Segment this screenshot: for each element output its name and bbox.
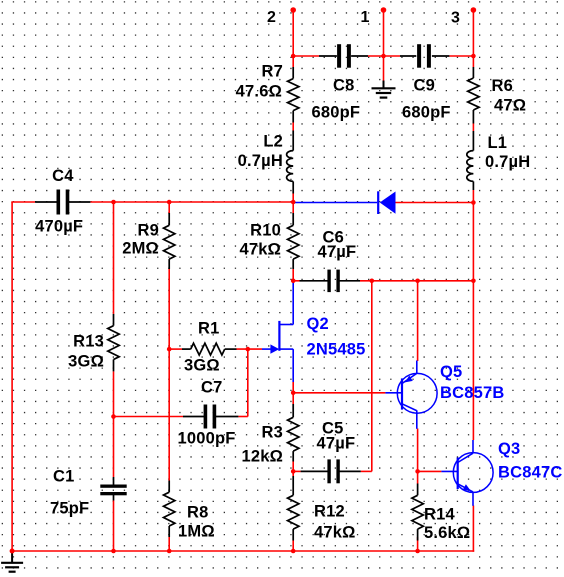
junction xyxy=(111,200,116,205)
capacitor C6 xyxy=(300,229,361,293)
capacitor C9 xyxy=(400,44,451,121)
svg-text:3: 3 xyxy=(451,10,460,27)
wire Q3 base row xyxy=(418,470,442,472)
svg-text:Q3: Q3 xyxy=(498,440,520,458)
svg-text:R9: R9 xyxy=(138,222,160,240)
junction xyxy=(370,279,375,284)
junction xyxy=(246,347,251,352)
svg-text:C1: C1 xyxy=(53,468,75,486)
wire R3 column xyxy=(292,393,294,472)
wire C7 row xyxy=(114,416,248,418)
junction xyxy=(291,549,296,554)
wire Q3 emitter drop xyxy=(472,506,474,552)
wire R10 column xyxy=(292,202,294,281)
resistor R7 xyxy=(236,63,299,123)
resistor R10 xyxy=(239,213,298,269)
wire main horizontal left segment xyxy=(11,201,293,203)
wire Q2 source to junction xyxy=(292,382,294,393)
svg-text:C7: C7 xyxy=(201,379,223,397)
capacitor C8 xyxy=(312,44,369,121)
svg-text:L2: L2 xyxy=(263,133,283,151)
svg-text:1: 1 xyxy=(361,9,370,26)
junction xyxy=(291,469,296,474)
resistor R8 xyxy=(164,481,215,541)
ground top xyxy=(372,81,396,98)
wire Q5 base row xyxy=(293,392,385,394)
junction xyxy=(291,279,296,284)
junction xyxy=(167,200,172,205)
wire R12 column top xyxy=(292,471,294,551)
svg-text:BC857B: BC857B xyxy=(440,384,504,402)
junction xyxy=(10,549,15,554)
svg-text:0.7µH: 0.7µH xyxy=(485,153,530,171)
wire node1 ground stub xyxy=(383,56,385,81)
svg-text:2N5485: 2N5485 xyxy=(307,341,366,359)
terminal node 2 xyxy=(290,7,296,13)
svg-text:BC847C: BC847C xyxy=(498,464,562,482)
junction xyxy=(111,549,116,554)
wire R14 column xyxy=(417,471,419,551)
resistor R6 xyxy=(468,67,526,124)
junction xyxy=(415,279,420,284)
wire R6 column segments xyxy=(472,56,474,202)
svg-text:470µF: 470µF xyxy=(35,218,83,236)
svg-text:2MΩ: 2MΩ xyxy=(122,240,159,258)
svg-text:Q5: Q5 xyxy=(440,363,462,381)
svg-text:0.7µH: 0.7µH xyxy=(238,152,283,170)
svg-text:R3: R3 xyxy=(262,424,284,442)
junction xyxy=(291,391,296,396)
svg-text:47.6Ω: 47.6Ω xyxy=(236,83,282,101)
svg-text:1MΩ: 1MΩ xyxy=(178,523,215,541)
wire bottom rail xyxy=(11,550,474,552)
junction xyxy=(415,549,420,554)
wire top horizontal C8 C9 row xyxy=(293,55,473,57)
svg-text:R14: R14 xyxy=(424,506,455,524)
wire left vertical rail xyxy=(11,202,13,552)
svg-text:47kΩ: 47kΩ xyxy=(239,241,281,259)
svg-text:47µF: 47µF xyxy=(317,435,356,453)
wire R1 row xyxy=(169,348,262,350)
wire Q5 collector to junction xyxy=(417,429,419,472)
wire C6 row xyxy=(293,280,473,282)
inductor L1 xyxy=(467,131,531,190)
svg-text:47Ω: 47Ω xyxy=(494,97,526,115)
junction xyxy=(111,414,116,419)
svg-text:3GΩ: 3GΩ xyxy=(184,357,220,375)
transistor Q3 NPN xyxy=(441,440,562,506)
wire C6 C5 connector xyxy=(371,281,373,472)
inductor L2 xyxy=(238,131,294,194)
svg-text:12kΩ: 12kΩ xyxy=(241,448,283,466)
capacitor C5 xyxy=(301,420,361,484)
diode D1 xyxy=(293,191,395,214)
resistor R12 xyxy=(288,476,356,542)
resistor R3 xyxy=(241,404,298,466)
wire C5 row xyxy=(293,470,372,472)
junction xyxy=(471,54,476,59)
junction xyxy=(167,347,172,352)
terminal node 1 xyxy=(381,7,387,13)
capacitor C1 xyxy=(50,468,127,518)
transistor Q5 PNP xyxy=(385,361,504,429)
svg-text:R7: R7 xyxy=(262,63,284,81)
junction xyxy=(167,549,172,554)
wire top rail node1 drop xyxy=(383,10,385,56)
resistor R9 xyxy=(122,213,175,269)
svg-text:680pF: 680pF xyxy=(312,104,361,122)
capacitor C7 xyxy=(178,379,239,448)
svg-text:R1: R1 xyxy=(198,320,220,338)
wire diode right segment xyxy=(396,202,474,204)
capacitor C4 xyxy=(35,167,90,236)
svg-text:C4: C4 xyxy=(52,167,74,185)
svg-text:1000pF: 1000pF xyxy=(178,430,236,448)
resistor R14 xyxy=(412,484,470,543)
wire R13 rail xyxy=(113,202,115,551)
junction xyxy=(291,54,296,59)
junction xyxy=(471,200,476,205)
svg-text:C8: C8 xyxy=(333,77,355,95)
junction xyxy=(381,54,386,59)
wire R9 R8 rail xyxy=(168,202,170,551)
wire top rail node3 drop xyxy=(472,10,474,56)
wire top rail node2 drop xyxy=(292,10,294,56)
svg-text:75pF: 75pF xyxy=(50,500,89,518)
svg-text:R12: R12 xyxy=(314,503,345,521)
svg-text:47kΩ: 47kΩ xyxy=(314,524,356,542)
svg-text:3GΩ: 3GΩ xyxy=(68,353,104,371)
junction xyxy=(415,469,420,474)
svg-text:R8: R8 xyxy=(187,504,209,522)
resistor R13 xyxy=(68,314,119,372)
junction xyxy=(471,279,476,284)
svg-text:L1: L1 xyxy=(488,134,508,152)
wire node3 rail down to Q3 collector xyxy=(472,202,474,440)
ground bottom xyxy=(1,551,23,572)
node 3 xyxy=(451,10,460,27)
svg-text:R6: R6 xyxy=(492,77,514,95)
svg-text:R10: R10 xyxy=(250,222,281,240)
node 1 xyxy=(361,9,370,26)
svg-text:Q2: Q2 xyxy=(307,315,329,333)
wire Q5 emitter feed xyxy=(417,281,419,361)
svg-text:R13: R13 xyxy=(73,333,104,351)
wire R7 column segments xyxy=(292,56,294,202)
svg-text:680pF: 680pF xyxy=(402,104,451,122)
svg-text:5.6kΩ: 5.6kΩ xyxy=(424,524,470,542)
wire C7 to R1 connector xyxy=(247,349,249,416)
resistor R1 xyxy=(182,320,237,375)
svg-text:2: 2 xyxy=(267,9,276,26)
transistor Q2 JFET xyxy=(262,281,366,382)
terminal node 3 xyxy=(471,7,477,13)
svg-text:47µF: 47µF xyxy=(318,243,357,261)
svg-text:C9: C9 xyxy=(414,77,436,95)
junction xyxy=(291,200,296,205)
node 2 xyxy=(267,9,276,26)
